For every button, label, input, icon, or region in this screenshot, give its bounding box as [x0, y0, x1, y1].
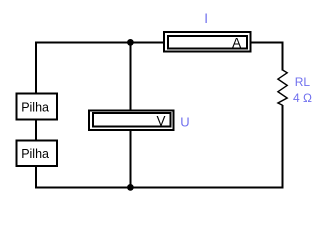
junction node bottom	[127, 184, 134, 191]
svg-text:RL: RL	[295, 75, 311, 89]
battery cell B2 "Pilha"	[17, 140, 58, 166]
svg-text:V: V	[156, 113, 165, 128]
ammeter A1	[164, 32, 251, 52]
svg-text:4 Ω: 4 Ω	[293, 91, 312, 105]
battery cell B1 "Pilha"	[17, 93, 58, 119]
wire: voltmeter down to bottom node	[129, 129, 131, 187]
junction node top	[127, 39, 134, 46]
wire: bottom-left corner up to battery box 2	[35, 165, 37, 188]
svg-text:A: A	[232, 35, 241, 50]
wire: top horizontal left segment (node top-left to ammeter)	[36, 42, 164, 93]
svg-text:U: U	[180, 114, 189, 129]
svg-text:Pilha: Pilha	[21, 100, 49, 114]
wire: top node down to voltmeter	[129, 42, 131, 111]
wire: between battery boxes	[35, 119, 37, 142]
label 4 ohm value	[293, 91, 312, 105]
label RL	[295, 75, 311, 89]
label I (current)	[204, 11, 208, 26]
svg-text:Pilha: Pilha	[21, 147, 49, 161]
wire: resistor bottom to bottom-right corner to bottom wire	[36, 105, 283, 187]
label U (voltage)	[180, 114, 189, 129]
resistor RL zigzag	[278, 70, 287, 105]
svg-text:I: I	[204, 11, 208, 26]
wire: ammeter right to top-right corner down to resistor	[251, 42, 283, 70]
voltmeter V1	[89, 110, 174, 129]
